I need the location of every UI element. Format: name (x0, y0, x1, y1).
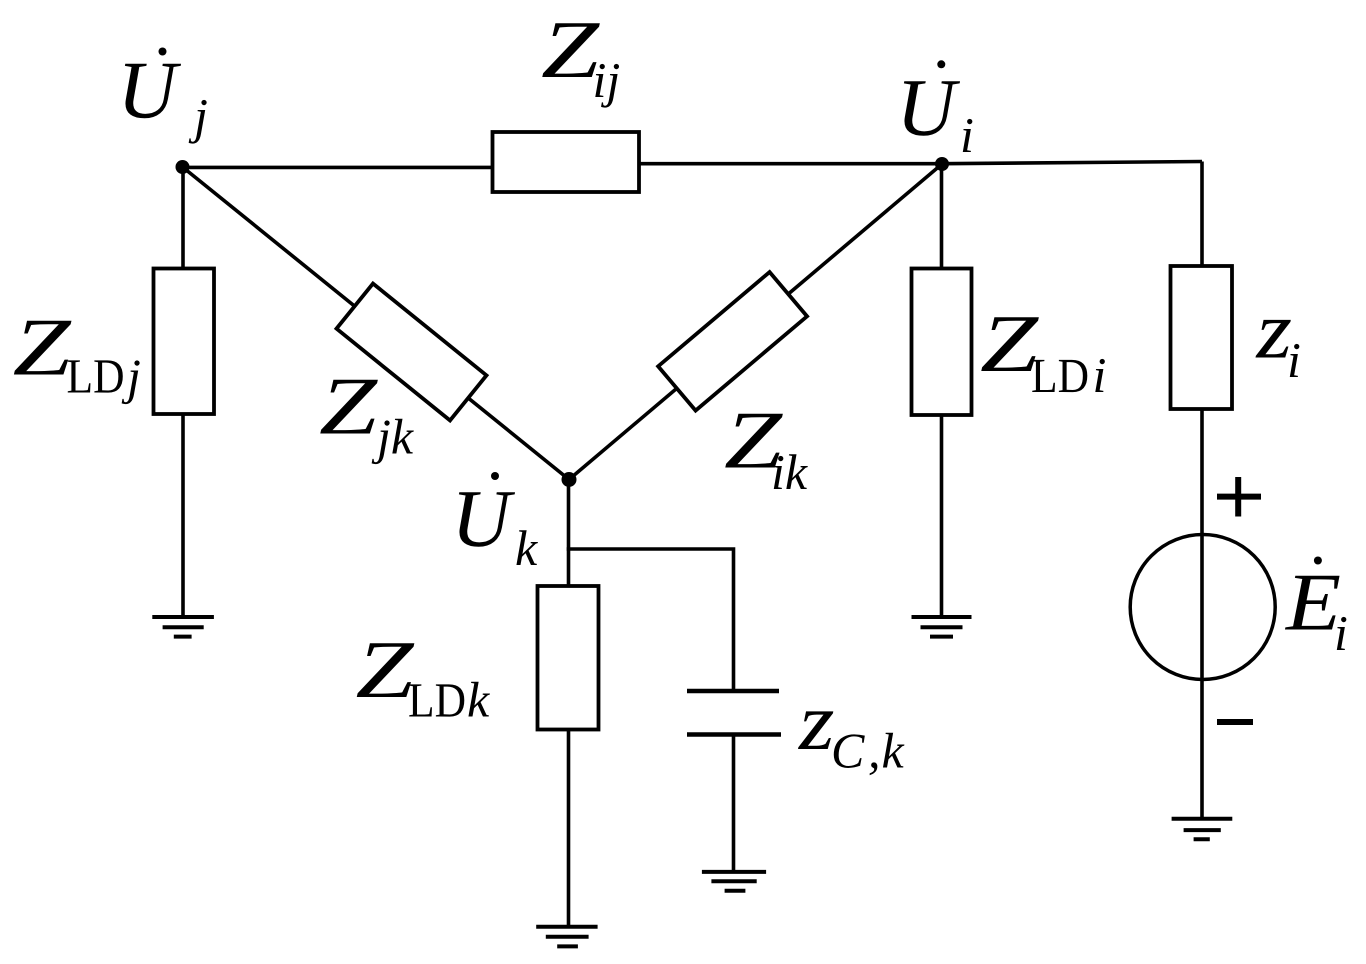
wire j down to ground (181, 167, 185, 617)
wire k branch to capacitor (567, 549, 734, 690)
svg-text:k: k (515, 520, 538, 576)
wire i to k (diagonal) (569, 164, 942, 480)
svg-text:Z: Z (319, 360, 379, 451)
node Uj (176, 160, 190, 174)
label Ui (896, 60, 974, 163)
wire j to i (top) (183, 166, 561, 170)
source plus sign (1217, 477, 1261, 517)
wire capacitor to ground (732, 736, 736, 872)
wire i to top-right corner (942, 162, 1202, 164)
resistor Zjk (337, 284, 487, 421)
wire j to k (diagonal) (183, 167, 570, 480)
svg-text:U: U (896, 62, 960, 153)
svg-text:Z: Z (13, 301, 73, 392)
label zC,k (798, 676, 905, 779)
resistor ZLDk (538, 586, 599, 730)
svg-text:k: k (467, 671, 490, 727)
label Ei (1285, 557, 1348, 662)
label ZLDk (356, 624, 491, 727)
ground of ZLDk (536, 927, 597, 947)
label Zik (724, 394, 808, 500)
wire i down to ground (940, 164, 944, 617)
wire z_i down through source to ground (1200, 162, 1204, 819)
source minus sign (1217, 719, 1253, 725)
svg-text:jk: jk (371, 409, 414, 465)
label ZLDi (980, 298, 1106, 403)
ground of ZLDj (152, 617, 214, 637)
svg-text:z: z (798, 676, 835, 767)
svg-text:U: U (117, 45, 181, 136)
ground of ZLDi (912, 617, 972, 637)
svg-text:,: , (868, 723, 881, 779)
svg-text:E: E (1285, 557, 1341, 648)
svg-text:i: i (960, 107, 974, 163)
svg-text:LD: LD (67, 349, 125, 404)
label Uk (451, 472, 538, 576)
svg-text:i: i (1287, 332, 1301, 388)
resistor zi (1171, 266, 1233, 409)
label Zjk (319, 360, 414, 464)
ground of capacitor (702, 872, 766, 891)
svg-text:C: C (831, 723, 865, 779)
svg-text:U: U (451, 473, 515, 564)
capacitor zC,k (687, 691, 781, 735)
svg-text:ik: ik (771, 444, 808, 500)
label zi (1255, 285, 1301, 389)
node Ui (935, 157, 949, 171)
svg-text:i: i (1093, 347, 1107, 403)
label Uj (117, 45, 208, 145)
wire k down to ground (567, 480, 571, 928)
resistor ZLDj (154, 269, 215, 415)
svg-text:LD: LD (1031, 348, 1089, 403)
label Zij (541, 4, 620, 108)
resistor Zik (658, 272, 807, 411)
label ZLDj (13, 301, 141, 404)
ground of source Ei (1172, 819, 1233, 840)
resistor ZLDi (912, 269, 972, 416)
svg-text:k: k (882, 723, 905, 779)
svg-text:ij: ij (593, 52, 621, 108)
source Ei circle (1130, 535, 1275, 680)
svg-text:i: i (1334, 605, 1348, 661)
node Uk (562, 472, 577, 487)
svg-text:LD: LD (408, 672, 466, 727)
resistor Zij (493, 132, 640, 192)
svg-text:Z: Z (356, 624, 416, 715)
